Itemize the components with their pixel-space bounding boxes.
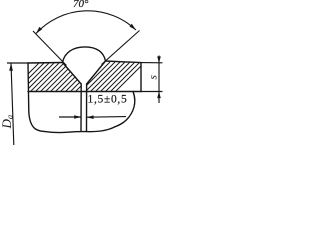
svg-text:1,5±0,5: 1,5±0,5 <box>88 93 128 105</box>
svg-text:s: s <box>148 75 160 80</box>
svg-text:70°: 70° <box>73 0 89 10</box>
svg-text:Dа: Dа <box>0 115 15 130</box>
